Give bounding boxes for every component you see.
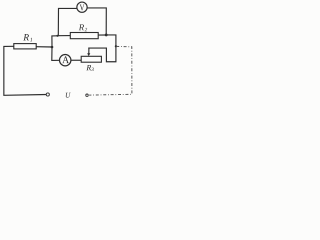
wire: right loop from R2-right node, down, left under R3, up to wiper arm	[89, 35, 116, 62]
rheostat R3 wiper arrow shaft	[88, 48, 90, 53]
ammeter A glyph	[62, 56, 69, 63]
node: R1 right junction	[51, 46, 54, 49]
terminal left of U	[46, 93, 49, 96]
node: R2 right junction	[105, 33, 108, 36]
wire: V left lead and top-left corner down to R2-left junction	[58, 8, 76, 35]
wire: jog from R2-left junction down to R1 junction	[52, 36, 58, 47]
label R3	[86, 65, 91, 70]
wire: R1 right lead to junction	[36, 46, 52, 48]
resistor R1	[14, 44, 36, 49]
node: R2 left junction	[56, 35, 58, 37]
rheostat R3 wiper arrowhead	[87, 53, 90, 56]
wire: from R1 junction down then right into ammeter	[52, 47, 60, 60]
ammeter A	[59, 55, 70, 66]
voltmeter V	[77, 2, 87, 12]
wire: V right lead and top-right corner down to R2-right junction	[87, 8, 106, 35]
wire: R2 left lead	[57, 35, 70, 37]
label R1	[23, 34, 29, 40]
wire (dashed): supply connection right side and bottom	[89, 46, 132, 95]
wire: R1 left lead, left vertical, bottom wire to terminal	[4, 46, 46, 95]
resistor R3	[81, 56, 101, 62]
label R2	[79, 24, 84, 30]
wire: ammeter right lead to R3	[71, 59, 81, 61]
wire: R2 right lead	[98, 34, 106, 36]
resistor R2	[70, 33, 98, 39]
terminal right of U	[86, 94, 88, 96]
voltmeter V glyph	[80, 4, 85, 10]
label U	[66, 93, 71, 98]
node: supply tap junction	[115, 45, 117, 47]
